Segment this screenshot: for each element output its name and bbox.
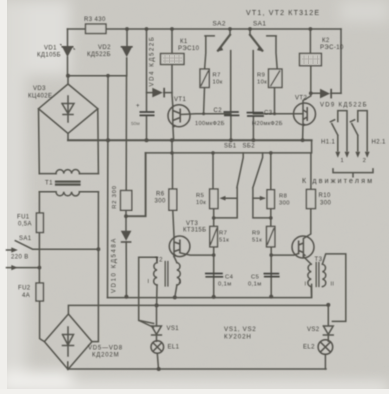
svg-text:0,1м: 0,1м <box>218 282 232 288</box>
svg-text:FU2: FU2 <box>18 286 31 292</box>
svg-text:R2 300: R2 300 <box>112 185 118 209</box>
svg-text:R3 430: R3 430 <box>84 17 106 23</box>
svg-text:Н2.1: Н2.1 <box>372 140 387 146</box>
svg-text:R9: R9 <box>252 231 260 237</box>
svg-text:С2: С2 <box>214 108 223 114</box>
svg-text:VT3: VT3 <box>186 221 198 227</box>
svg-text:К1: К1 <box>180 39 188 45</box>
svg-text:4А: 4А <box>22 293 30 299</box>
svg-text:SБ1: SБ1 <box>224 143 237 149</box>
svg-text:VD9 КД522Б: VD9 КД522Б <box>320 103 368 109</box>
svg-text:Т3: Т3 <box>315 257 323 263</box>
svg-text:10к: 10к <box>213 80 223 86</box>
svg-text:VD4 КД522Б: VD4 КД522Б <box>150 36 156 87</box>
svg-text:R8: R8 <box>279 194 287 200</box>
svg-text:R7: R7 <box>219 231 227 237</box>
svg-text:VD10 КД548А: VD10 КД548А <box>112 237 118 293</box>
svg-text:ЕL2: ЕL2 <box>303 345 315 351</box>
svg-text:КТ315Б: КТ315Б <box>183 228 207 234</box>
svg-text:КД105Б: КД105Б <box>37 53 61 59</box>
svg-text:VS1: VS1 <box>167 326 180 332</box>
svg-text:FU1: FU1 <box>17 215 30 221</box>
svg-text:+: + <box>136 104 140 110</box>
svg-text:SБ2: SБ2 <box>243 143 256 149</box>
svg-text:2: 2 <box>363 158 367 164</box>
svg-text:II: II <box>331 282 335 288</box>
svg-text:С5: С5 <box>251 275 259 281</box>
svg-text:VD1: VD1 <box>44 46 57 52</box>
svg-text:С4: С4 <box>225 275 234 281</box>
svg-text:0,1м: 0,1м <box>248 282 262 288</box>
svg-text:SA1: SA1 <box>253 21 266 28</box>
svg-text:51к: 51к <box>219 238 229 244</box>
svg-text:I: I <box>148 279 150 285</box>
svg-text:R10: R10 <box>319 193 331 199</box>
svg-text:300: 300 <box>279 201 290 207</box>
svg-text:VT1, VT2 КТ312Е: VT1, VT2 КТ312Е <box>246 10 320 17</box>
svg-text:КЦ402Е: КЦ402Е <box>28 94 52 100</box>
svg-text:Т1: Т1 <box>45 181 53 187</box>
svg-text:SA2: SA2 <box>213 21 226 28</box>
svg-text:51к: 51к <box>252 238 262 244</box>
svg-text:VS2: VS2 <box>307 327 320 333</box>
svg-text:VT1: VT1 <box>174 97 186 103</box>
svg-text:К движителям: К движителям <box>302 178 374 185</box>
svg-text:КД522Б: КД522Б <box>87 52 111 58</box>
svg-text:R7: R7 <box>213 73 221 79</box>
svg-text:Н1.1: Н1.1 <box>321 140 336 146</box>
svg-text:VS1, VS2: VS1, VS2 <box>224 326 256 333</box>
svg-text:100мкФ2Б: 100мкФ2Б <box>195 121 225 127</box>
svg-text:1: 1 <box>341 158 345 164</box>
svg-text:Т2: Т2 <box>155 258 163 264</box>
svg-text:SA1: SA1 <box>19 236 32 242</box>
svg-text:VD3: VD3 <box>33 86 46 92</box>
svg-text:КД202М: КД202М <box>92 353 119 359</box>
svg-text:РЭС-10: РЭС-10 <box>320 45 344 51</box>
svg-text:R6: R6 <box>156 192 165 198</box>
svg-text:VD5—VD8: VD5—VD8 <box>88 346 123 352</box>
svg-text:РЭС10: РЭС10 <box>178 46 200 52</box>
svg-text:220 В: 220 В <box>11 255 29 261</box>
svg-text:КУ202Н: КУ202Н <box>224 334 252 341</box>
svg-text:С3: С3 <box>264 111 273 117</box>
svg-text:1: 1 <box>178 279 181 285</box>
svg-text:I: I <box>305 282 307 288</box>
svg-text:R5: R5 <box>196 193 204 199</box>
svg-text:Н20мкФ2Б: Н20мкФ2Б <box>252 121 283 127</box>
svg-text:VT2: VT2 <box>295 96 307 102</box>
svg-text:300: 300 <box>320 201 331 207</box>
svg-text:300: 300 <box>155 199 166 205</box>
svg-text:К2: К2 <box>322 38 330 44</box>
svg-text:10к: 10к <box>257 80 267 86</box>
svg-text:R9: R9 <box>257 73 265 79</box>
svg-text:0,5А: 0,5А <box>18 222 32 228</box>
svg-text:10к: 10к <box>196 200 206 206</box>
svg-text:ЕL1: ЕL1 <box>168 344 180 350</box>
svg-text:50м: 50м <box>131 121 140 127</box>
svg-text:VD2: VD2 <box>98 45 111 51</box>
